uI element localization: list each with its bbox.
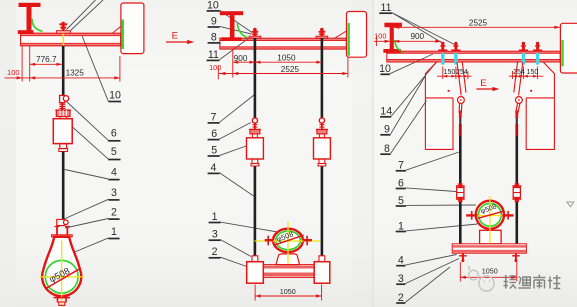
svg-text:3: 3 <box>212 229 218 241</box>
svg-text:5: 5 <box>398 195 404 207</box>
svg-text:10: 10 <box>109 89 121 101</box>
svg-text:4: 4 <box>111 166 117 178</box>
svg-text:5: 5 <box>111 146 117 158</box>
svg-text:2525: 2525 <box>469 18 488 27</box>
svg-text:150: 150 <box>444 69 456 76</box>
svg-text:776.7: 776.7 <box>36 55 57 64</box>
svg-text:E: E <box>480 78 486 89</box>
svg-text:1: 1 <box>111 226 117 238</box>
svg-text:1325: 1325 <box>66 68 85 77</box>
svg-text:2525: 2525 <box>281 65 300 74</box>
svg-text:1050: 1050 <box>482 266 498 275</box>
svg-text:6: 6 <box>111 127 117 139</box>
svg-text:1: 1 <box>398 220 404 232</box>
svg-text:E: E <box>172 30 178 41</box>
svg-text:8: 8 <box>211 31 217 43</box>
svg-text:10: 10 <box>379 63 391 75</box>
svg-text:1050: 1050 <box>280 287 296 296</box>
svg-text:254: 254 <box>513 69 525 76</box>
svg-text:2: 2 <box>212 246 218 258</box>
svg-text:2: 2 <box>398 292 404 304</box>
svg-text:3: 3 <box>111 187 117 199</box>
svg-text:900: 900 <box>410 32 424 41</box>
svg-text:14: 14 <box>380 106 392 118</box>
svg-text:6: 6 <box>398 177 404 189</box>
svg-text:254: 254 <box>456 69 468 76</box>
svg-text:8: 8 <box>384 143 390 155</box>
svg-text:4: 4 <box>398 255 404 267</box>
svg-text:11: 11 <box>208 49 219 61</box>
svg-text:150: 150 <box>527 69 539 76</box>
svg-text:100: 100 <box>209 63 221 72</box>
svg-text:9: 9 <box>384 124 390 136</box>
svg-text:1050: 1050 <box>277 54 296 63</box>
svg-text:7: 7 <box>211 111 217 123</box>
svg-text:7: 7 <box>398 160 404 172</box>
svg-text:2: 2 <box>111 206 117 218</box>
svg-text:9: 9 <box>211 16 217 28</box>
svg-text:10: 10 <box>207 0 219 11</box>
svg-text:100: 100 <box>374 31 386 40</box>
svg-text:100: 100 <box>7 68 20 77</box>
svg-text:3: 3 <box>398 273 404 285</box>
svg-text:5: 5 <box>211 144 217 156</box>
svg-text:1: 1 <box>212 211 218 223</box>
svg-text:900: 900 <box>234 54 248 63</box>
svg-text:6: 6 <box>211 128 217 140</box>
svg-text:4: 4 <box>211 162 217 174</box>
